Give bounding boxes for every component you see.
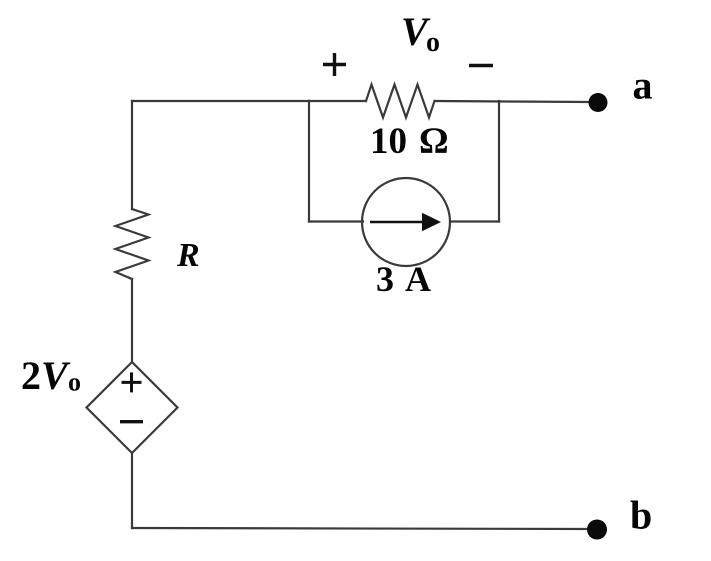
current source 3A (circle) (362, 178, 450, 266)
wire: parallel-branch right vertical (498, 101, 500, 222)
wire: bottom horizontal (132, 528, 590, 529)
plus sign inside diamond (122, 372, 142, 392)
resistor R (vertical zigzag) (116, 209, 149, 279)
wire: top-left horizontal segment (132, 100, 309, 102)
svg-text:b: b (630, 493, 652, 538)
wire: branch bottom-right segment (450, 220, 499, 222)
wire: left vertical mid segment (131, 279, 133, 362)
minus sign (Vo polarity, top) (469, 64, 493, 67)
wire: branch bottom-left segment (309, 220, 363, 222)
dependent voltage source 2Vo (diamond) (87, 362, 178, 453)
resistor 10 Ohm (horizontal zigzag) (366, 85, 435, 118)
wire: parallel-branch left vertical (308, 101, 310, 222)
current source arrow (370, 213, 441, 231)
plus sign (Vo polarity, top) (323, 53, 346, 76)
svg-text:2V: 2V (21, 353, 71, 398)
svg-text:R: R (176, 237, 200, 274)
minus sign inside diamond (120, 420, 143, 423)
svg-text:10: 10 (370, 121, 407, 162)
svg-text:a: a (633, 63, 653, 108)
wire: left vertical lower segment (131, 453, 133, 528)
terminal node a (dot) (589, 93, 608, 112)
wire: resistor to terminal a (435, 101, 590, 102)
terminal node b (dot) (587, 520, 607, 540)
svg-text:Ω: Ω (419, 121, 449, 162)
wire: top horizontal junction to resistor (309, 100, 366, 102)
svg-text:o: o (426, 27, 440, 58)
svg-text:3 A: 3 A (376, 259, 433, 299)
wire: left vertical upper segment (131, 101, 133, 209)
svg-text:o: o (68, 368, 81, 397)
